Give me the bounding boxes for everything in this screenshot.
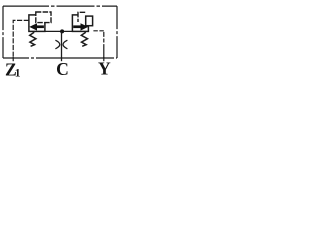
- orifice (restrictor): [55, 40, 67, 49]
- valve V2 main square (right pressure valve): [72, 15, 88, 32]
- svg-text:Y: Y: [98, 58, 111, 78]
- valve V2 pilot stage dashed outline (top-left corner and left edge): [78, 12, 85, 22]
- port Y stub below boundary: [103, 57, 105, 61]
- svg-text:C: C: [56, 59, 69, 79]
- svg-text:1: 1: [15, 68, 21, 80]
- enclosure boundary (dash-dot frame): [3, 6, 117, 58]
- valve V2 spring: [81, 32, 87, 46]
- wire: junction down to orifice: [61, 31, 63, 61]
- port Z1 stub below boundary: [12, 57, 14, 61]
- wire: main gallery line between valves to junction: [45, 30, 73, 32]
- valve V1 flow arrow (points left): [29, 23, 44, 30]
- pilot line to port Y (dashed): [93, 30, 103, 32]
- valve V2 flow arrow (points right): [73, 23, 88, 30]
- valve V1 main square (left pressure valve): [29, 15, 45, 32]
- valve V2 pilot stage enclosure (white fill overlapping main square): [78, 12, 93, 25]
- pilot line to port Z1 (dashed): [13, 20, 29, 58]
- junction dot (node between V1 and V2): [60, 29, 64, 33]
- valve V1 pilot stage (dashed rectangle, white fill overlaps main square): [36, 12, 51, 23]
- valve V1 spring: [30, 32, 36, 46]
- valve V2 pilot valve small square (solid): [86, 16, 93, 26]
